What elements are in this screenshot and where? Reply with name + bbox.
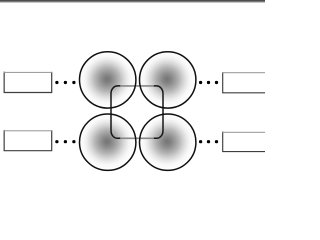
node bottom-left outline: [80, 114, 136, 170]
node top-left outline: [80, 52, 136, 108]
wire right bracket link (black, rounded corners): [154, 86, 163, 138]
wire top horizontal link (gray): [120, 85, 154, 87]
box right-top (continuation rectangle, clipped at right edge): [222, 72, 267, 93]
wire left bracket link (black, rounded corners): [111, 86, 120, 138]
node top-right outline: [140, 52, 196, 108]
box left-top (continuation rectangle): [4, 72, 53, 93]
wire bottom horizontal link (gray): [120, 137, 154, 139]
ellipsis dots right-bottom row: [199, 140, 218, 143]
ellipsis dots left-bottom row: [55, 140, 75, 143]
node top-left fill: [80, 52, 136, 108]
box left-bottom (continuation rectangle): [4, 130, 53, 151]
box right-bottom (continuation rectangle, clipped at right edge): [222, 132, 267, 152]
node bottom-right outline: [140, 114, 196, 170]
node bottom-right fill: [140, 114, 196, 170]
ellipsis dots right-top row: [199, 81, 218, 84]
node top-right fill: [140, 52, 196, 108]
ellipsis dots left-top row: [55, 81, 75, 84]
top rule line: [0, 0, 265, 1]
node bottom-left fill: [80, 114, 136, 170]
